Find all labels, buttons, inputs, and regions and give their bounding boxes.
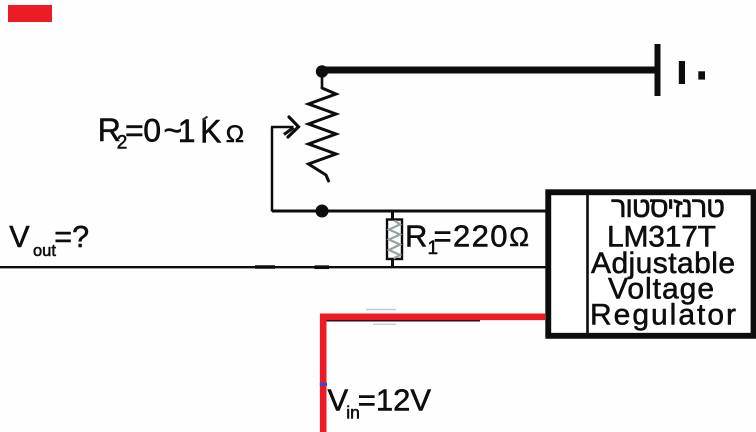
faint gray dash below red wire: [373, 323, 396, 325]
blue tick on red wire: [320, 383, 327, 386]
faint gray dash above red wire: [366, 309, 396, 311]
label R2 value: [98, 112, 244, 154]
svg-text:0: 0: [143, 113, 161, 149]
wire: top horizontal wire from node A to battery: [324, 67, 655, 74]
wiper arrow head: [288, 117, 299, 137]
wire: bottom horizontal wire from wiper to regulator: [272, 210, 546, 213]
label Vout: [9, 220, 89, 260]
svg-text:=: =: [125, 113, 144, 149]
potentiometer R2 zigzag body: [309, 88, 337, 181]
label R1 value: [405, 219, 529, 260]
stray accent mark above K: [203, 117, 208, 121]
svg-text:Ω: Ω: [226, 121, 244, 148]
wire: wiper vertical wire: [271, 127, 274, 212]
resistor R1 top stub: [391, 212, 394, 220]
black residue line under red wire: [325, 320, 480, 322]
svg-text:=12V: =12V: [358, 383, 432, 418]
svg-text:=?: =?: [54, 220, 89, 254]
wiper arrow shaft: [271, 126, 294, 129]
wire blob 2 on V_out line: [315, 265, 330, 269]
resistor R1 bottom stub: [391, 259, 394, 266]
battery B1 terminal dot: [698, 71, 705, 79]
wiper arrow head extra stroke: [284, 128, 294, 135]
regulator U1 box: [548, 192, 753, 336]
wire: stub from node A down to R2: [321, 77, 324, 88]
node B (bottom junction dot): [316, 205, 329, 218]
resistor R1 body box: [387, 220, 402, 260]
svg-text:out: out: [33, 242, 56, 260]
battery B1 long plate: [655, 44, 661, 96]
svg-text:R: R: [405, 219, 427, 254]
svg-text:Ω: Ω: [509, 222, 529, 252]
wire: V_out long thin line: [0, 266, 546, 268]
svg-text:טרנזיסטור: טרנזיסטור: [611, 192, 725, 224]
svg-text:V: V: [9, 220, 30, 254]
wire blob 1 on V_out line: [255, 265, 275, 268]
regulator U1 inner divider (tab): [586, 192, 589, 334]
label Vin: [328, 383, 432, 423]
battery B1 short plate: [679, 61, 685, 84]
svg-text:1: 1: [178, 113, 196, 149]
red annotation rectangle top-left: [8, 5, 52, 22]
resistor R1 gray zigzag: [389, 221, 400, 259]
wire: red Vin wire (vertical + horizontal into regulator): [323, 317, 545, 432]
node A (top junction dot): [316, 65, 328, 77]
